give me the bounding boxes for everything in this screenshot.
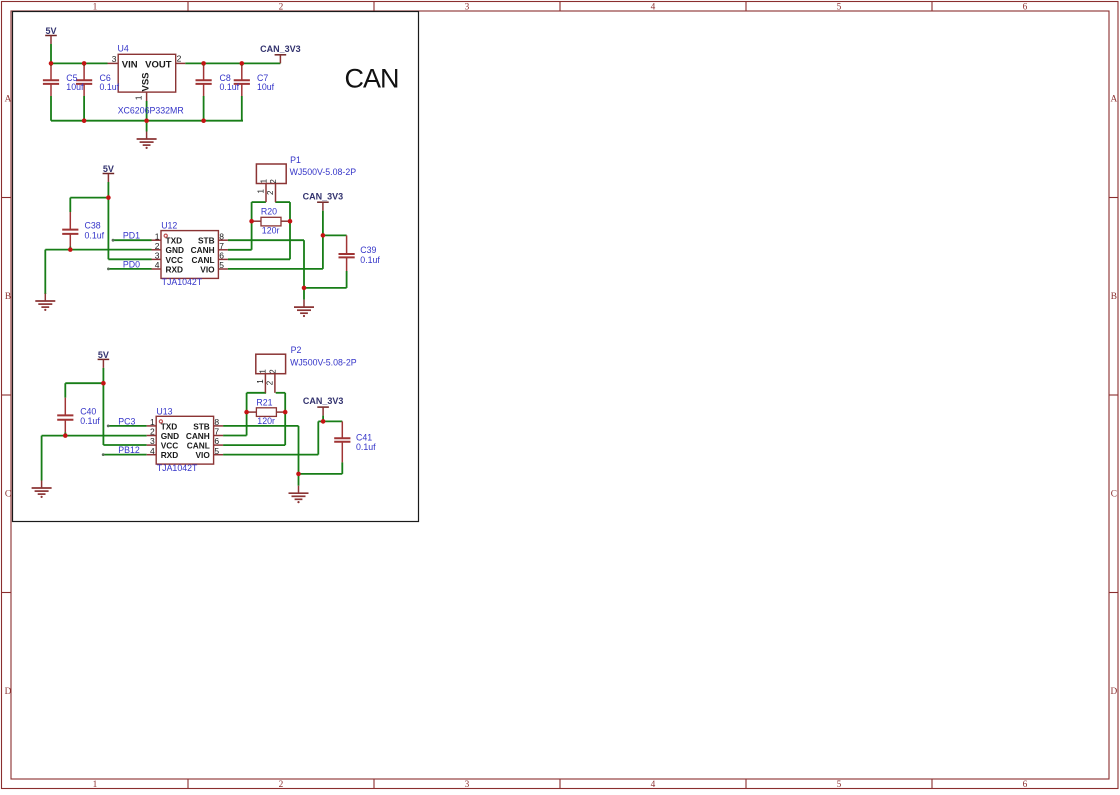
svg-text:VCC: VCC	[161, 441, 179, 451]
svg-text:1: 1	[150, 417, 155, 427]
svg-text:CAN_3V3: CAN_3V3	[303, 396, 344, 406]
svg-text:CAN: CAN	[345, 64, 399, 94]
svg-text:C: C	[1111, 490, 1117, 500]
svg-text:3: 3	[465, 780, 470, 790]
svg-text:6: 6	[214, 436, 219, 446]
svg-text:2: 2	[266, 190, 275, 195]
svg-text:1: 1	[155, 231, 160, 241]
svg-text:2: 2	[177, 54, 182, 64]
svg-text:R21: R21	[256, 397, 272, 407]
svg-text:0.1uf: 0.1uf	[220, 82, 240, 92]
svg-text:STB: STB	[198, 236, 215, 246]
svg-text:VIO: VIO	[196, 450, 211, 460]
svg-text:5V: 5V	[98, 350, 109, 360]
svg-text:RXD: RXD	[166, 264, 184, 274]
svg-text:VSS: VSS	[141, 72, 152, 91]
svg-text:PD1: PD1	[123, 231, 140, 241]
svg-text:TJA1042T: TJA1042T	[157, 463, 198, 473]
svg-text:C: C	[5, 490, 11, 500]
svg-text:B: B	[5, 292, 11, 302]
svg-text:5V: 5V	[103, 164, 114, 174]
svg-text:4: 4	[651, 2, 656, 12]
svg-text:5: 5	[837, 780, 842, 790]
svg-text:STB: STB	[193, 421, 210, 431]
svg-text:CANL: CANL	[187, 441, 210, 451]
svg-text:6: 6	[1023, 2, 1028, 12]
svg-text:0.1uf: 0.1uf	[356, 442, 376, 452]
svg-text:CANL: CANL	[192, 255, 215, 265]
svg-text:C39: C39	[360, 245, 376, 255]
svg-text:5: 5	[837, 2, 842, 12]
svg-text:D: D	[5, 687, 12, 697]
svg-text:8: 8	[214, 417, 219, 427]
svg-text:120r: 120r	[262, 226, 280, 236]
svg-text:2: 2	[266, 380, 275, 385]
svg-text:TXD: TXD	[166, 236, 183, 246]
svg-text:2: 2	[269, 369, 278, 374]
svg-text:TJA1042T: TJA1042T	[162, 277, 203, 287]
svg-text:VCC: VCC	[166, 255, 184, 265]
svg-text:1: 1	[133, 95, 143, 100]
svg-text:6: 6	[1023, 780, 1028, 790]
svg-text:7: 7	[214, 427, 219, 437]
svg-text:4: 4	[155, 260, 160, 270]
svg-text:3: 3	[150, 436, 155, 446]
svg-text:0.1uf: 0.1uf	[80, 416, 100, 426]
svg-text:VIO: VIO	[200, 264, 215, 274]
svg-text:A: A	[5, 95, 12, 105]
svg-text:CAN_3V3: CAN_3V3	[303, 191, 344, 201]
svg-text:1: 1	[259, 178, 268, 183]
svg-text:PD0: PD0	[123, 259, 140, 269]
svg-text:GND: GND	[161, 431, 179, 441]
svg-text:RXD: RXD	[161, 450, 179, 460]
svg-text:C40: C40	[80, 407, 96, 417]
svg-text:D: D	[1110, 687, 1117, 697]
svg-text:GND: GND	[166, 245, 184, 255]
svg-text:PB12: PB12	[118, 445, 140, 455]
svg-text:P2: P2	[291, 345, 302, 355]
svg-text:1: 1	[259, 369, 268, 374]
svg-text:XC6206P332MR: XC6206P332MR	[118, 106, 184, 116]
svg-text:5V: 5V	[45, 26, 56, 36]
svg-text:10uf: 10uf	[66, 82, 84, 92]
svg-text:2: 2	[279, 780, 284, 790]
svg-text:VIN: VIN	[122, 60, 138, 71]
svg-text:5: 5	[214, 446, 219, 456]
svg-text:0.1uf: 0.1uf	[360, 255, 380, 265]
svg-text:7: 7	[219, 241, 224, 251]
svg-text:0.1uf: 0.1uf	[100, 82, 120, 92]
svg-text:2: 2	[150, 427, 155, 437]
svg-text:10uf: 10uf	[257, 82, 275, 92]
svg-text:WJ500V-5.08-2P: WJ500V-5.08-2P	[290, 357, 357, 367]
svg-text:4: 4	[651, 780, 656, 790]
svg-text:R20: R20	[261, 207, 277, 217]
svg-text:C38: C38	[85, 221, 101, 231]
svg-text:1: 1	[256, 189, 265, 194]
svg-text:VOUT: VOUT	[145, 60, 172, 71]
svg-text:CANH: CANH	[186, 431, 210, 441]
svg-text:CAN_3V3: CAN_3V3	[260, 44, 301, 54]
svg-text:2: 2	[269, 179, 278, 184]
svg-text:120r: 120r	[257, 416, 275, 426]
svg-text:CANH: CANH	[191, 245, 215, 255]
svg-text:4: 4	[150, 446, 155, 456]
svg-text:0.1uf: 0.1uf	[85, 230, 105, 240]
svg-text:3: 3	[112, 54, 117, 64]
svg-text:6: 6	[219, 251, 224, 261]
svg-text:U13: U13	[156, 406, 172, 416]
svg-text:U12: U12	[161, 221, 177, 231]
svg-text:A: A	[1110, 95, 1117, 105]
svg-text:2: 2	[155, 241, 160, 251]
svg-text:1: 1	[93, 780, 98, 790]
svg-text:U4: U4	[118, 43, 129, 53]
svg-text:8: 8	[219, 231, 224, 241]
svg-text:P1: P1	[290, 155, 301, 165]
svg-text:TXD: TXD	[161, 421, 178, 431]
svg-text:1: 1	[256, 379, 265, 384]
svg-text:WJ500V-5.08-2P: WJ500V-5.08-2P	[290, 167, 357, 177]
svg-text:5: 5	[219, 260, 224, 270]
svg-text:PC3: PC3	[118, 416, 135, 426]
svg-text:3: 3	[155, 251, 160, 261]
svg-text:3: 3	[465, 2, 470, 12]
svg-text:B: B	[1111, 292, 1117, 302]
